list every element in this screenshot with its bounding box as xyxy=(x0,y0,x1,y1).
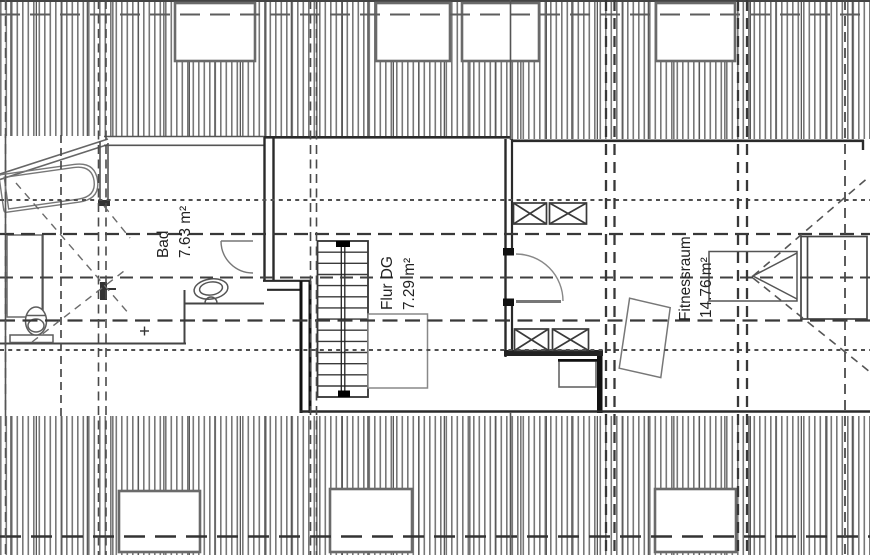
room label Flur DG xyxy=(379,256,418,310)
dashed grid line vertical pair x606 x614 xyxy=(606,0,615,555)
svg-text:Bad: Bad xyxy=(155,231,172,258)
dashed grid line horizontal y320 xyxy=(0,319,870,321)
shaft boxes upper xyxy=(514,203,587,224)
wall jog Bad to Flur xyxy=(263,281,311,290)
Flur bottom step wall xyxy=(504,350,603,413)
toilet xyxy=(10,307,53,343)
bathroom door arc xyxy=(221,241,253,273)
bathroom door post xyxy=(100,282,116,300)
dashed grid line vertical x5 xyxy=(5,0,7,555)
svg-text:7.29 m²: 7.29 m² xyxy=(401,258,418,310)
Flur to Fitnessraum door xyxy=(516,254,563,302)
dashed grid line horizontal y277 xyxy=(0,277,870,279)
svg-text:7.63 m²: 7.63 m² xyxy=(177,206,194,258)
dashed roof valley diagonals in Fitnessraum xyxy=(753,176,870,372)
bottom wall of Flur and Fitnessraum xyxy=(300,410,870,413)
skylight window bottom 3 xyxy=(655,489,736,552)
cupboard right wall xyxy=(801,237,867,320)
dashed grid line horizontal y15 xyxy=(0,14,870,16)
wall between Flur and Fitnessraum xyxy=(503,139,514,357)
bathtub xyxy=(0,162,100,213)
Fitnessraum top wall xyxy=(511,140,864,150)
svg-text:Fitnessraum: Fitnessraum xyxy=(677,236,694,321)
roof hatch bottom band xyxy=(0,416,870,555)
dashed grid line horizontal y200 xyxy=(0,199,870,201)
svg-text:14.76 m²: 14.76 m² xyxy=(698,257,715,318)
room label Fitnessraum xyxy=(677,236,715,321)
skylight window bottom 2 xyxy=(330,489,412,552)
dashed grid line vertical pair x738 x747 xyxy=(738,0,747,555)
svg-text:Flur DG: Flur DG xyxy=(379,256,396,310)
shaft boxes lower xyxy=(515,329,589,351)
left exterior wall xyxy=(5,134,7,416)
dashed diagonal in Bad xyxy=(16,183,130,342)
niche box below step wall xyxy=(559,361,596,387)
stair landing xyxy=(368,314,428,388)
skylight window bottom 1 xyxy=(119,491,200,552)
dashed grid line horizontal y536 xyxy=(0,535,870,538)
dashed grid line horizontal y234 xyxy=(0,233,870,235)
skylight window top 4 xyxy=(656,3,735,61)
wall right of bathtub xyxy=(98,141,110,206)
Flur top wall xyxy=(264,136,511,139)
plus mark in bathroom xyxy=(140,327,149,336)
bathroom lower step wall xyxy=(0,290,264,344)
staircase xyxy=(318,241,369,397)
wall between Bad and Flur xyxy=(265,137,274,281)
tilted mat in Fitnessraum xyxy=(619,298,670,377)
skylight window top 1 xyxy=(175,3,255,61)
room label Bad xyxy=(155,206,194,258)
bathroom top wall double line xyxy=(104,137,264,146)
dark roof line x510 xyxy=(510,0,512,555)
wash basin xyxy=(193,277,229,303)
shower cabinet xyxy=(7,235,43,317)
skylight window top 2 xyxy=(376,3,450,61)
skylight window top 3 xyxy=(462,3,539,61)
chevron box in Fitnessraum xyxy=(709,252,797,302)
dashed grid line vertical pair x98 x106 xyxy=(99,0,107,555)
dashed grid line horizontal y350 xyxy=(0,349,870,351)
Flur left wall xyxy=(301,281,310,413)
dashed grid line vertical x61 xyxy=(60,135,62,418)
dashed grid line vertical pair x311 x317 xyxy=(311,0,317,555)
roof hatch top band xyxy=(0,0,870,139)
dashed grid line vertical x845 xyxy=(844,0,846,555)
sloped wall above bathtub xyxy=(0,139,108,180)
